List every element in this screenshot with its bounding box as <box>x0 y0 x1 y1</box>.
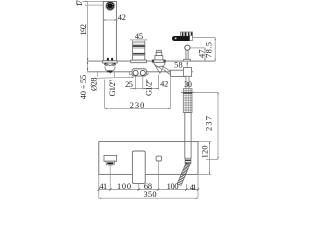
svg-text:30: 30 <box>184 80 192 89</box>
svg-text:G1/2″: G1/2″ <box>108 79 117 97</box>
plan hose curl <box>177 163 190 185</box>
cartridge dark band 1 <box>133 45 145 47</box>
deck hole edge left <box>97 71 99 77</box>
dim 120 line <box>198 142 211 175</box>
spout aerator circle <box>106 2 115 11</box>
cartridge thin lines <box>133 44 145 55</box>
svg-text:192: 192 <box>79 24 88 36</box>
plan view deck rectangle <box>99 142 198 175</box>
spout flange screws <box>107 58 113 61</box>
hose circle right <box>140 70 145 75</box>
deck top line <box>88 60 216 62</box>
dim 230 ext lines <box>105 78 171 109</box>
spout scalloped nut <box>105 63 116 66</box>
svg-text:25: 25 <box>125 80 133 89</box>
svg-text:42: 42 <box>118 13 126 22</box>
spout column body <box>103 1 116 60</box>
plan shower wand ribbed section <box>183 89 192 113</box>
hose connection block under cartridge <box>132 69 146 76</box>
plan handle <box>132 151 145 183</box>
dim arrows left column <box>85 1 88 71</box>
cartridge body <box>133 42 145 60</box>
hose nipple right <box>146 72 148 75</box>
plan spout body <box>104 155 117 161</box>
svg-text:230: 230 <box>130 101 145 110</box>
svg-text:58: 58 <box>174 60 183 69</box>
deck bottom line <box>88 71 193 73</box>
dim 45 line <box>133 40 145 42</box>
svg-text:40 ÷ 55: 40 ÷ 55 <box>79 75 88 100</box>
svg-text:100: 100 <box>167 182 179 191</box>
plan spout lip <box>106 161 115 165</box>
dim 237 line <box>206 92 218 159</box>
plan bottom dim row line <box>99 189 198 191</box>
dim 78.5 ext and line <box>193 38 216 61</box>
holder ring circle <box>185 45 190 50</box>
svg-text:G1/2″: G1/2″ <box>145 79 154 97</box>
cartridge dark band 2 <box>133 53 145 55</box>
spout clamp nut <box>107 70 112 73</box>
below-deck horizontal pipe <box>171 70 185 76</box>
plan spout mouth dark <box>107 162 114 164</box>
plan bottom dim ticks <box>98 188 200 190</box>
dim 350 line <box>99 197 198 199</box>
svg-text:237: 237 <box>204 116 213 131</box>
plan spout centerline <box>109 165 111 190</box>
hose outlet block <box>184 68 192 77</box>
plan wand connector nut <box>185 158 191 164</box>
diverter knob <box>155 50 163 60</box>
dim 42 top line <box>103 19 118 21</box>
svg-text:350: 350 <box>144 190 157 199</box>
svg-text:17: 17 <box>75 0 84 7</box>
dim 17 ext lines <box>83 1 104 5</box>
hose outlet tube <box>186 76 189 88</box>
dim 30 line / 237 top ext <box>182 91 218 93</box>
svg-text:41: 41 <box>190 183 197 192</box>
plan shower wand smooth tube <box>185 113 191 159</box>
holder base <box>184 59 191 61</box>
dim 192 line <box>87 1 89 72</box>
diverter below-deck elbow funnel <box>153 63 170 75</box>
svg-text:42: 42 <box>160 80 168 89</box>
dim 58 vertical arrow <box>187 62 188 68</box>
plan bottom dim row ext lines <box>99 174 198 198</box>
diameter leader line <box>95 77 134 79</box>
shower head spray comb <box>181 32 193 38</box>
svg-text:45: 45 <box>135 32 143 41</box>
hose nipple left <box>130 72 132 75</box>
plan diverter centerline <box>158 161 160 190</box>
svg-text:120: 120 <box>200 145 209 158</box>
svg-text:Ø28: Ø28 <box>90 77 99 91</box>
spout shank bell <box>105 66 115 71</box>
shower head end block <box>190 36 193 41</box>
deck hole edge right <box>113 71 115 77</box>
cartridge flange <box>131 60 147 63</box>
plan diverter knob <box>156 156 162 161</box>
hose circle left <box>133 70 138 75</box>
diverter flange <box>152 60 165 63</box>
holder post <box>186 50 188 59</box>
svg-text:78.5: 78.5 <box>204 42 213 58</box>
dim 25-42 ext lines <box>130 75 159 90</box>
svg-text:100: 100 <box>117 182 131 191</box>
dim 47 ext and line <box>190 48 205 61</box>
spout base flange <box>103 61 118 63</box>
svg-text:41: 41 <box>99 182 107 191</box>
shower head pill <box>172 36 190 41</box>
